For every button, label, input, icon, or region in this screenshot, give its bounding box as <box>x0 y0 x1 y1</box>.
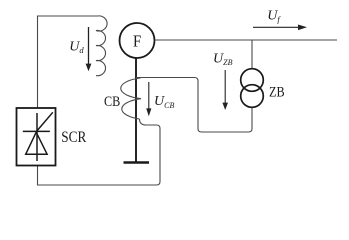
arrow UZB (down) <box>222 70 228 110</box>
svg-text:ZB: ZB <box>269 85 285 101</box>
svg-text:CB: CB <box>104 94 120 110</box>
rectifier box SCR <box>17 108 56 166</box>
svg-text:Uf: Uf <box>267 9 281 25</box>
generator circle F <box>120 23 155 58</box>
svg-text:UCB: UCB <box>154 94 174 110</box>
wire : ZB top stub to output wire <box>251 40 253 69</box>
arrow UCB (down) <box>146 82 151 116</box>
wire : left loop vertical + top horizontal to field winding <box>38 16 98 109</box>
thyristor symbol <box>23 112 53 161</box>
svg-text:SCR: SCR <box>61 129 86 146</box>
wire : CB bottom terminal down-right loop to SCR bottom <box>38 119 161 185</box>
svg-text:UZB: UZB <box>213 52 233 68</box>
main vertical shaft line F to ground <box>135 58 137 162</box>
inductor field winding Ud (4 bumps) <box>96 16 107 76</box>
arrow Ud (down) <box>86 27 92 71</box>
arrow Uf (right) <box>253 25 307 31</box>
winding CB (two loops across shaft) <box>121 78 141 119</box>
svg-text:F: F <box>133 32 141 51</box>
wire : CB top terminal to ZB bottom (right loop) <box>136 78 252 133</box>
wire : top output wire <box>155 39 338 41</box>
ground bar <box>124 161 150 164</box>
svg-text:Ud: Ud <box>69 40 84 56</box>
transformer ZB (two circles) <box>241 69 264 92</box>
